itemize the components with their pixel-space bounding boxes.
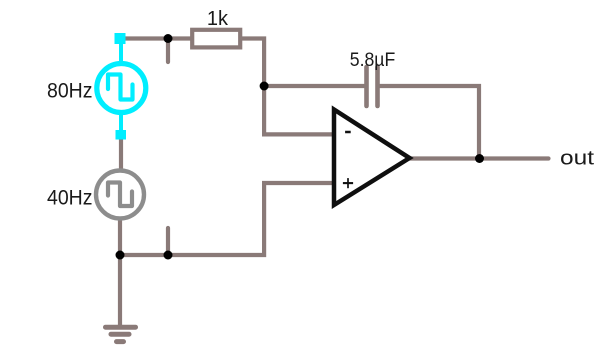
lead bottom — [119, 112, 123, 133]
body circle — [97, 64, 146, 113]
wire: op-amp output to out terminal — [410, 156, 549, 160]
source V1 80Hz (selected, cyan) — [97, 33, 146, 140]
junction node E (ground rail middle) — [164, 251, 173, 260]
ground — [106, 255, 136, 342]
terminal post top — [115, 33, 126, 44]
svg-text:80Hz: 80Hz — [47, 80, 93, 103]
svg-text:out: out — [560, 148, 595, 170]
svg-text:5.8µF: 5.8µF — [350, 49, 396, 71]
wire: bottom stub above junction E — [166, 228, 170, 253]
wire: capacitor right plate to corner then down to output node — [378, 86, 479, 159]
wire: bottom rail up then right to op-amp non-inverting input — [120, 183, 334, 255]
wire: 80Hz top terminal to resistor — [121, 36, 192, 40]
wire: resistor right to corner then down to node B — [241, 39, 265, 89]
junction node A (top, at 1k input) — [164, 34, 173, 43]
svg-text:1k: 1k — [207, 8, 229, 30]
square-wave glyph — [108, 75, 133, 100]
svg-text:40Hz: 40Hz — [47, 186, 93, 209]
op-amp U1 — [334, 110, 410, 206]
wire: node B right to capacitor left plate — [264, 84, 366, 88]
junction node D (ground rail left) — [116, 251, 125, 260]
junction node B (inverting summing node) — [260, 82, 269, 91]
junction node C (output/feedback) — [475, 154, 484, 163]
wire: 80Hz bottom terminal to 40Hz source top — [119, 139, 123, 172]
resistor R1 — [192, 30, 240, 48]
lead top — [119, 41, 123, 66]
wire: 40Hz source bottom to ground node — [118, 218, 122, 255]
terminal post bottom — [116, 130, 127, 140]
wire: node B down then right to op-amp inverting input — [264, 84, 334, 134]
source V2 40Hz — [96, 171, 144, 219]
square-wave glyph — [108, 183, 132, 207]
capacitor C1 — [367, 67, 378, 106]
wire: top stub below junction A — [166, 40, 170, 62]
